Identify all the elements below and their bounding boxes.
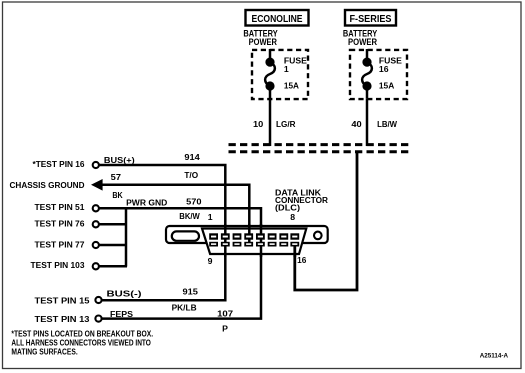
DLC pin 5 [256,233,265,239]
wire BUS(-) circuit 915 PK/LB from DLC pin 10 [99,243,226,300]
wire TEST PIN 76 stub [96,223,127,226]
wire stubs through DLC pins [225,224,294,257]
svg-text:1: 1 [284,64,289,74]
svg-text:T/O: T/O [184,170,198,180]
svg-text:15A: 15A [284,81,300,91]
svg-text:TEST PIN 51: TEST PIN 51 [35,202,85,212]
svg-text:TEST PIN 103: TEST PIN 103 [31,260,85,270]
svg-text:TEST PIN 13: TEST PIN 13 [35,314,90,324]
wire chassis ground circuit 57 BK to DLC pin 4 [102,185,249,246]
splice bus upper (dashed) [229,143,412,146]
DLC pin 10 [221,242,230,247]
svg-text:(DLC): (DLC) [275,202,300,212]
terminal TEST PIN 13 [95,316,101,322]
svg-text:CHASSIS GROUND: CHASSIS GROUND [10,180,85,190]
wire PWR GND circuit 570 BK/W to DLC pin 5 [96,208,261,238]
DLC pin 16 [290,242,299,247]
svg-text:10: 10 [253,119,263,129]
wire FEPS circuit 107 P from DLC pin 13 [99,236,262,319]
svg-text:A25114-A: A25114-A [480,352,509,359]
svg-text:40: 40 [351,119,361,129]
DLC pin 3 [233,233,242,239]
svg-text:57: 57 [111,172,121,182]
wire TEST PIN 103 stub [96,265,127,268]
DLC pin 8 [290,233,299,239]
svg-text:BUS(-): BUS(-) [107,289,142,299]
terminal TEST PIN 16 [93,162,99,168]
svg-text:BUS(+): BUS(+) [104,155,135,165]
svg-text:TEST PIN 76: TEST PIN 76 [35,219,85,229]
wire TEST PIN 77 stub [96,244,127,247]
wire circuit 40 LB/W (F-Series fuse to splice) [366,99,369,146]
label BATTERY POWER (Econoline) [243,29,277,48]
terminal TEST PIN 103 [93,263,99,269]
svg-text:PK/LB: PK/LB [172,303,197,313]
svg-text:LB/W: LB/W [377,119,398,129]
DLC pin 15 [279,242,288,247]
svg-text:FEPS: FEPS [110,309,133,319]
DLC pin 1 [209,233,218,239]
F-SERIES title box [345,10,396,26]
fuse 1 labels [284,56,307,91]
wire DLC pin 16 to battery splice [295,153,357,291]
svg-text:1: 1 [208,212,213,222]
footnote text [11,328,153,356]
label DATA LINK CONNECTOR (DLC) [275,187,329,212]
terminal TEST PIN 76 [93,221,99,227]
chassis ground arrow [91,179,103,191]
label BATTERY POWER (F-Series) [343,29,378,48]
terminal TEST PIN 77 [93,242,99,248]
svg-text:ECONOLINE: ECONOLINE [252,13,303,25]
DLC pin 6 [268,233,277,239]
svg-text:914: 914 [184,152,200,162]
fuse box (Econoline, dashed) [252,50,308,99]
DLC connector body [166,226,328,254]
svg-text:POWER: POWER [249,37,278,47]
svg-text:15A: 15A [379,81,395,91]
terminal TEST PIN 15 [95,297,101,303]
svg-text:107: 107 [217,308,233,318]
label 40 LB/W [351,119,397,129]
DLC pin 2 [221,233,230,239]
DLC pin 14 [268,242,277,247]
svg-text:16: 16 [297,255,306,265]
svg-text:POWER: POWER [348,37,378,47]
svg-text:915: 915 [183,286,199,296]
fuse 1 15A (Econoline) [265,49,275,99]
svg-text:8: 8 [290,212,295,222]
svg-text:BK: BK [112,190,123,200]
ECONOLINE title box [246,10,309,26]
svg-text:LG/R: LG/R [276,119,296,129]
svg-text:BK/W: BK/W [179,211,200,221]
wire circuit 10 LG/R (Econoline fuse to splice) [269,99,272,146]
svg-text:TEST PIN 15: TEST PIN 15 [35,296,90,306]
svg-text:TEST PIN 77: TEST PIN 77 [35,239,85,249]
wire BUS(+) circuit 914 T/O to DLC pin 2 [96,165,225,246]
terminal TEST PIN 51 [93,205,99,211]
svg-text:*TEST PIN 16: *TEST PIN 16 [33,159,85,169]
svg-text:570: 570 [186,197,202,207]
svg-text:9: 9 [208,256,213,266]
DLC pin 4 [244,233,253,239]
fuse box (F-Series, dashed) [350,50,407,99]
DLC pin 13 [256,242,265,247]
svg-text:MATING SURFACES.: MATING SURFACES. [11,347,77,357]
svg-text:16: 16 [379,64,389,74]
fuse 16 15A (F-Series) [362,49,372,99]
DLC pin 7 [279,233,288,239]
fuse 16 labels [379,56,402,91]
splice bus lower (dashed) [229,150,412,153]
DLC pin 9 [209,242,218,247]
label 10 LG/R [253,119,296,129]
wire test-pin ground bus vertical [125,207,128,267]
svg-text:F-SERIES: F-SERIES [350,13,392,25]
DLC pin 12 [244,242,253,247]
DLC pin 11 [233,242,242,247]
svg-text:P: P [222,323,228,333]
svg-text:PWR GND: PWR GND [126,198,167,208]
